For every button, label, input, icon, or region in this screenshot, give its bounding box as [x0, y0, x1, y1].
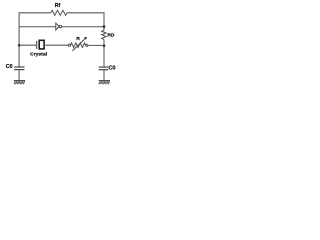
resistor R zigzag — [70, 43, 85, 48]
wire left vertical and top-left lead — [19, 13, 51, 67]
ground left — [14, 81, 25, 85]
ground right — [99, 81, 110, 85]
svg-text:Rf: Rf — [55, 3, 61, 9]
wire inverter input — [19, 26, 56, 28]
wire left cap to ground — [18, 70, 20, 81]
node junction right bottom — [103, 44, 106, 47]
capacitor C0 right top plate — [99, 66, 109, 68]
wire crystal to R — [45, 44, 68, 46]
wire bottom branch to crystal — [19, 44, 36, 46]
node junction right top — [103, 25, 106, 28]
variable resistor R right terminal — [86, 44, 88, 46]
capacitor C0 left bottom plate — [14, 69, 24, 71]
capacitor C0 right bottom plate — [99, 69, 109, 71]
crystal X1 left plate — [36, 41, 38, 49]
op-amp U1 inverter triangle — [56, 23, 59, 30]
resistor Rf — [51, 10, 67, 15]
svg-text:C0: C0 — [6, 64, 13, 70]
wire right vertical lower — [103, 39, 105, 66]
svg-text:Crystal: Crystal — [30, 52, 48, 58]
crystal X1 body — [39, 40, 44, 49]
wire top-right lead and right vertical upper — [67, 13, 104, 30]
node junction left bottom — [18, 44, 21, 47]
inverter bubble — [59, 25, 61, 27]
capacitor C0 left top plate — [14, 66, 24, 68]
wire R to right vertical — [88, 44, 104, 46]
variable resistor R left terminal — [68, 44, 70, 46]
svg-text:RD: RD — [107, 32, 114, 38]
wire inverter output — [62, 26, 104, 28]
svg-text:C0: C0 — [108, 65, 115, 71]
svg-text:R: R — [76, 36, 80, 42]
R wiper arrow — [72, 38, 85, 51]
wire right cap to ground — [103, 70, 105, 81]
resistor RD vertical zigzag — [102, 30, 107, 39]
